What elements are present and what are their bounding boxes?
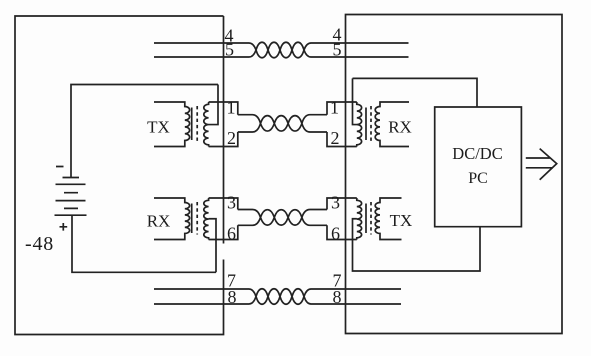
svg-text:6: 6 [227,223,236,243]
svg-text:RX: RX [388,118,412,137]
svg-text:5: 5 [333,40,342,60]
svg-text:DC/DC: DC/DC [452,144,502,163]
svg-text:3: 3 [227,193,236,213]
svg-text:TX: TX [390,211,413,230]
svg-text:8: 8 [228,287,237,307]
svg-text:1: 1 [227,98,236,118]
svg-text:6: 6 [331,223,340,243]
svg-text:PC: PC [468,170,488,187]
svg-text:3: 3 [331,193,340,213]
svg-text:TX: TX [147,118,170,137]
svg-text:5: 5 [225,40,234,60]
svg-text:-48: -48 [25,233,54,255]
svg-text:RX: RX [147,212,171,231]
svg-text:8: 8 [333,287,342,307]
svg-text:2: 2 [331,128,340,148]
svg-text:1: 1 [330,98,339,118]
svg-text:2: 2 [227,128,236,148]
